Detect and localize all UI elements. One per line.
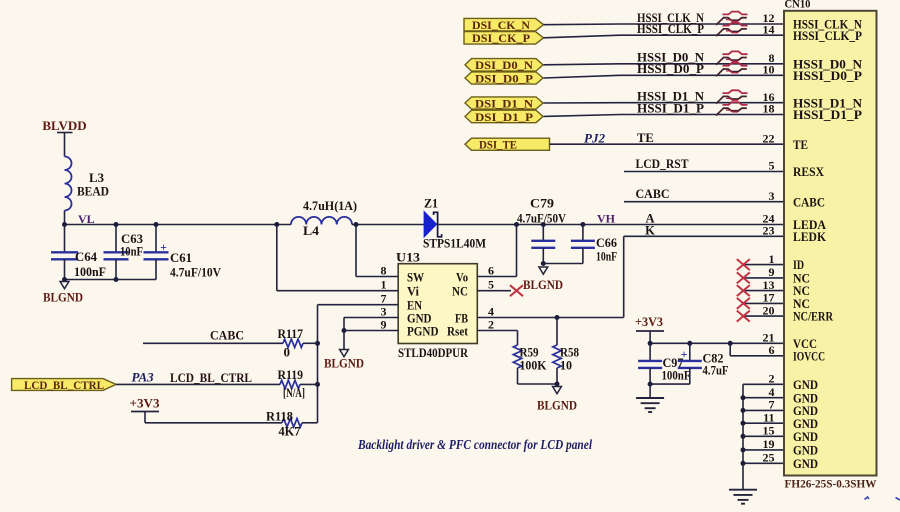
wire GND pin [743, 449, 784, 451]
wire L4 to Z1 [352, 224, 425, 226]
node PJ2 [584, 131, 605, 146]
wire L3 to VL rail [64, 211, 66, 225]
wire SW feed from rail [356, 225, 398, 277]
svg-text:DSI_D0_P: DSI_D0_P [475, 71, 533, 85]
wire Z1 cathode to connector LEDA [438, 224, 784, 226]
svg-text:Z1: Z1 [424, 196, 438, 211]
junction [741, 447, 746, 452]
svg-text:0: 0 [284, 345, 291, 360]
svg-text:1: 1 [381, 278, 387, 292]
svg-text:Vi: Vi [407, 284, 419, 299]
wire NC pin [743, 277, 784, 279]
resistor R118 4K7 [266, 409, 318, 439]
resistor R119 N/A [278, 367, 318, 400]
svg-text:DSI_CK_P: DSI_CK_P [472, 31, 530, 45]
wire NC pin5 stub [477, 290, 511, 292]
junction [114, 277, 119, 282]
wire K vertical to pin23 [624, 236, 784, 317]
wire HSSI_D1_N [544, 102, 785, 104]
junction [354, 222, 359, 227]
svg-text:18: 18 [763, 102, 775, 116]
no-connect X [737, 259, 750, 270]
svg-text:DSI_D1_P: DSI_D1_P [475, 110, 533, 124]
wire VL rail [65, 224, 292, 226]
wire EN pin7 [318, 304, 399, 306]
junction [555, 315, 560, 320]
svg-text:PGND: PGND [407, 323, 439, 338]
junction [114, 222, 119, 227]
net label A [645, 212, 654, 226]
wire LCD_BL_CTRL to R119 [116, 383, 280, 385]
differential pair marker HSSI_CLK_P [716, 23, 748, 36]
connector pin numbers [763, 11, 775, 464]
no-connect X on pin5 [510, 285, 523, 296]
svg-text:15: 15 [763, 424, 775, 438]
node CABC stub [143, 328, 283, 344]
svg-text:10: 10 [560, 358, 572, 373]
wire FB pin4 to LEDK sense [477, 317, 623, 319]
net label LCD_BL_CTRL [170, 370, 252, 385]
port flag DSI_CK_N [464, 18, 544, 32]
wire HSSI_CLK_N [544, 23, 785, 26]
svg-text:8: 8 [381, 264, 387, 278]
wire GND pin3 [344, 317, 398, 319]
wire HSSI_D0_N [544, 64, 785, 65]
port flag DSI_TE [465, 138, 550, 152]
no-connect X [737, 272, 750, 283]
svg-text:NC: NC [452, 284, 468, 299]
svg-text:19: 19 [763, 437, 775, 451]
differential pair marker HSSI_D0_P [716, 63, 748, 76]
svg-text:10: 10 [763, 63, 775, 77]
wire PGND pin9 [344, 330, 398, 332]
net label HSSI_CLK_P [637, 22, 704, 36]
ground BLGND under R58 [537, 387, 577, 413]
svg-text:C61: C61 [170, 250, 192, 265]
wire artifact mark [865, 497, 870, 500]
svg-text:1: 1 [769, 252, 775, 266]
no-connect X [737, 285, 750, 296]
svg-text:BLGND: BLGND [324, 356, 364, 371]
svg-text:100nF: 100nF [74, 264, 106, 279]
wire GND pin [743, 383, 784, 385]
junction [741, 395, 746, 400]
svg-text:BLGND: BLGND [43, 290, 83, 305]
junction [315, 382, 320, 387]
svg-text:5: 5 [488, 278, 494, 292]
wire gnd vertical [343, 318, 345, 350]
svg-text:4: 4 [488, 305, 494, 319]
svg-text:4.7uF/10V: 4.7uF/10V [170, 265, 222, 280]
junction [741, 434, 746, 439]
svg-text:PA3: PA3 [132, 370, 155, 385]
svg-text:6: 6 [488, 264, 494, 278]
port flag DSI_D1_P [465, 110, 543, 124]
svg-text:HSSI_D0_P: HSSI_D0_P [793, 68, 862, 83]
svg-text:GND: GND [793, 456, 818, 471]
svg-text:PJ2: PJ2 [584, 131, 605, 146]
capacitor C66 10nF [543, 225, 617, 264]
svg-text:HSSI_CLK_P: HSSI_CLK_P [637, 22, 704, 36]
caption Backlight driver [357, 437, 592, 452]
wire LCD_RST [624, 171, 784, 173]
wire GND pin [743, 409, 784, 411]
svg-text:CABC: CABC [210, 328, 244, 343]
junction [154, 222, 159, 227]
svg-text:4.7uF: 4.7uF [703, 363, 729, 378]
wire R59 R58 bottom join [518, 383, 558, 385]
svg-text:DSI_D0_N: DSI_D0_N [475, 58, 533, 72]
svg-text:3: 3 [381, 305, 387, 319]
differential pair marker HSSI_D1_P [716, 102, 748, 115]
svg-text:11: 11 [763, 410, 774, 424]
wire NC pin [743, 264, 784, 266]
svg-text:22: 22 [763, 131, 775, 145]
junction [741, 421, 746, 426]
svg-text:+: + [681, 347, 688, 361]
svg-text:100nF: 100nF [662, 368, 691, 383]
svg-text:10nF: 10nF [120, 244, 143, 259]
svg-text:+3V3: +3V3 [130, 396, 161, 411]
wire NC pin [743, 302, 784, 304]
svg-text:TE: TE [637, 131, 654, 145]
no-connect X [737, 298, 750, 309]
svg-text:14: 14 [763, 22, 775, 36]
svg-text:23: 23 [763, 224, 775, 238]
wire NC pin [743, 315, 784, 317]
wire HSSI_D1_P [544, 115, 785, 117]
svg-text:5: 5 [769, 159, 775, 173]
wire GND pin [743, 462, 784, 464]
junction [648, 382, 653, 387]
junction [514, 222, 519, 227]
svg-text:HSSI_D1_P: HSSI_D1_P [637, 101, 704, 115]
svg-text:DSI_CK_N: DSI_CK_N [472, 18, 530, 32]
svg-text:RESX: RESX [793, 164, 825, 179]
svg-text:3: 3 [769, 189, 775, 203]
svg-text:Backlight driver & PFC connect: Backlight driver & PFC connector for LCD… [357, 437, 592, 452]
wire EN vertical bus [317, 305, 319, 423]
svg-text:R119: R119 [278, 367, 304, 382]
capacitor C79 4.7uF/50V [517, 196, 567, 264]
wire HSSI_D0_P [544, 75, 785, 78]
capacitor C97 100nF [638, 343, 690, 384]
wire BLVDD to L3 [64, 133, 66, 157]
U13 pin numbers left 8 1 7 3 9 [381, 264, 387, 332]
ground BLGND left [43, 282, 83, 305]
svg-text:Vo: Vo [456, 269, 468, 284]
resistor R59 100K [513, 345, 547, 385]
wire +3V3 to R118 [145, 422, 282, 424]
junction [741, 461, 746, 466]
svg-text:BLVDD: BLVDD [42, 118, 86, 133]
net label HSSI_D1_P [637, 101, 704, 115]
wire CABC [624, 201, 784, 203]
wire Vi feed from rail [277, 225, 398, 291]
svg-text:SW: SW [407, 269, 424, 284]
svg-text:25: 25 [763, 451, 775, 465]
port flag DSI_CK_P [464, 31, 544, 45]
svg-text:FH26-25S-0.3SHW: FH26-25S-0.3SHW [785, 477, 877, 491]
svg-text:+3V3: +3V3 [635, 314, 663, 329]
wire artifact mark [896, 498, 900, 501]
svg-text:4K7: 4K7 [279, 424, 301, 439]
capacitor C63 10nF [104, 225, 144, 280]
svg-text:LEDK: LEDK [793, 229, 827, 244]
resistor R117 0 [278, 326, 318, 360]
svg-text:C64: C64 [75, 249, 97, 264]
svg-text:20: 20 [763, 303, 775, 317]
connector CN10 body [784, 0, 877, 491]
wire GND pin [743, 422, 784, 424]
svg-text:U13: U13 [396, 250, 421, 265]
ground earth under C97 [636, 384, 664, 412]
capacitor C64 100nF [51, 225, 106, 280]
net label TE [637, 131, 654, 145]
svg-text:10nF: 10nF [596, 249, 617, 264]
differential pair marker HSSI_D0_N [716, 51, 748, 64]
net label HSSI_CLK_N [637, 11, 704, 25]
svg-text:CABC: CABC [636, 187, 670, 201]
ground BLGND under C79 [523, 267, 563, 292]
differential pair marker HSSI_CLK_N [716, 12, 748, 25]
capacitor C61 4.7uF/10V polarized [144, 225, 222, 280]
junction [342, 328, 347, 333]
junction [687, 341, 692, 346]
junction [580, 222, 585, 227]
wire GND bus vertical [742, 384, 744, 489]
svg-text:6: 6 [769, 343, 775, 357]
svg-text:LCD_RST: LCD_RST [636, 157, 690, 171]
wire capacitor bottom bus [65, 279, 157, 281]
port flag DSI_D0_P [465, 71, 543, 85]
capacitor C82 4.7uF polarized [650, 343, 728, 384]
svg-text:HSSI_D0_P: HSSI_D0_P [637, 62, 704, 76]
net label HSSI_D1_N [637, 90, 704, 104]
junction [541, 222, 546, 227]
net label CABC [636, 187, 670, 201]
svg-text:L4: L4 [303, 223, 320, 238]
power port +3V3 left [130, 396, 161, 423]
ground earth under GND bus [729, 490, 757, 504]
svg-text:TE: TE [793, 137, 808, 152]
svg-text:2: 2 [769, 372, 775, 386]
svg-text:IOVCC: IOVCC [793, 348, 825, 363]
wire NC pin [743, 290, 784, 292]
svg-text:HSSI_CLK_P: HSSI_CLK_P [793, 28, 862, 43]
U13 pin names [407, 269, 469, 338]
svg-text:2: 2 [488, 318, 494, 332]
svg-text:DSI_TE: DSI_TE [479, 138, 517, 152]
wire Vo pin6 to VH rail [477, 225, 516, 277]
no-connect X [737, 311, 750, 322]
ground BLGND under U13 [324, 350, 364, 371]
svg-text:+: + [160, 240, 167, 254]
junction [555, 382, 560, 387]
svg-text:HSSI_D1_P: HSSI_D1_P [793, 107, 862, 122]
junction [62, 222, 67, 227]
power port BLVDD [42, 118, 86, 133]
inductor L4 4.7uH(1A) [291, 198, 357, 238]
net label K [645, 223, 655, 237]
svg-text:[N/A]: [N/A] [283, 385, 305, 400]
node PA3 [132, 370, 155, 385]
connector pin names [793, 17, 863, 471]
junction [741, 408, 746, 413]
svg-text:CABC: CABC [793, 194, 825, 209]
svg-text:100K: 100K [520, 358, 548, 373]
differential pair marker HSSI_D1_N [716, 90, 748, 103]
port flag DSI_D1_N [465, 96, 543, 110]
svg-text:VH: VH [597, 212, 616, 226]
resistor R58 10 [553, 318, 580, 385]
U13 pin numbers right 6 5 4 2 [488, 264, 494, 332]
junction [62, 277, 67, 282]
svg-text:NC/ERR: NC/ERR [793, 309, 833, 324]
wire HSSI_CLK_P [544, 35, 785, 38]
power port +3V3 right [635, 314, 664, 343]
net label LCD_RST [636, 157, 690, 171]
svg-text:DSI_D1_N: DSI_D1_N [475, 96, 533, 110]
node VL [78, 212, 95, 226]
inductor L3 BEAD [65, 157, 110, 211]
junction [728, 341, 733, 346]
wire Rset pin2 down to R59 [477, 331, 517, 346]
wire GND pin [743, 435, 784, 437]
wire GND pin [743, 397, 784, 399]
svg-text:STPS1L40M: STPS1L40M [423, 236, 486, 251]
node VH [597, 212, 616, 226]
svg-text:LCD_BL_CTRL: LCD_BL_CTRL [170, 370, 252, 385]
diode Z1 STPS1L40M [423, 196, 486, 251]
wire VCC rail [650, 342, 784, 344]
svg-text:K: K [645, 223, 655, 237]
net label HSSI_D0_P [637, 62, 704, 76]
svg-text:BEAD: BEAD [77, 184, 109, 199]
port flag DSI_D0_N [465, 58, 543, 72]
junction [648, 341, 653, 346]
junction [315, 341, 320, 346]
svg-text:BLGND: BLGND [523, 277, 563, 292]
net label HSSI_D0_N [637, 51, 704, 65]
svg-text:4.7uH(1A): 4.7uH(1A) [303, 198, 357, 213]
junction [274, 222, 279, 227]
port flag LCD_BL_CTRL [12, 379, 116, 392]
svg-text:4.7uF/50V: 4.7uF/50V [517, 211, 567, 226]
svg-text:CN10: CN10 [785, 0, 811, 11]
svg-text:R118: R118 [266, 409, 293, 424]
svg-text:R117: R117 [278, 326, 304, 341]
svg-text:Rset: Rset [447, 323, 469, 338]
svg-text:9: 9 [381, 318, 387, 332]
IC U13 STLD40DPUR [396, 250, 477, 361]
wire TE [550, 143, 785, 145]
junction [541, 261, 546, 266]
svg-text:BLGND: BLGND [537, 398, 577, 413]
wire IOVCC branch [730, 343, 784, 356]
svg-text:LCD_BL_CTRL: LCD_BL_CTRL [24, 380, 104, 392]
svg-text:STLD40DPUR: STLD40DPUR [398, 345, 469, 360]
svg-text:C79: C79 [530, 196, 555, 211]
